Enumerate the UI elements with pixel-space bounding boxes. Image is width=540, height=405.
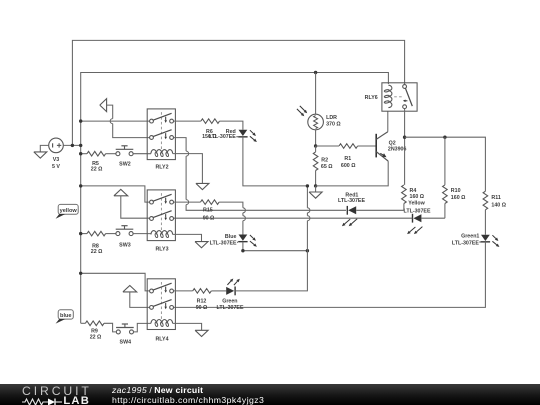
resistor R6 bbox=[201, 119, 220, 140]
wire bbox=[174, 138, 187, 152]
wire bbox=[81, 153, 87, 155]
CircuitLab logo bbox=[22, 385, 92, 398]
wire bbox=[174, 217, 413, 219]
wire bbox=[40, 145, 48, 152]
svg-text:Green1: Green1 bbox=[461, 234, 479, 240]
svg-text:SW2: SW2 bbox=[119, 161, 131, 167]
switch SW3 bbox=[116, 226, 134, 249]
wire bbox=[107, 105, 113, 119]
wire bbox=[315, 171, 317, 186]
junction bbox=[314, 71, 317, 74]
svg-text:160 Ω: 160 Ω bbox=[451, 195, 466, 201]
svg-text:600 Ω: 600 Ω bbox=[341, 163, 356, 169]
LED Green LTL-307EE bbox=[211, 279, 244, 311]
switch SW4 bbox=[116, 324, 134, 345]
wire bbox=[315, 130, 317, 146]
junction bbox=[403, 136, 406, 139]
resistor R2 bbox=[313, 146, 333, 171]
svg-text:blue: blue bbox=[60, 313, 72, 319]
wire bbox=[121, 196, 150, 218]
wire bbox=[444, 204, 446, 219]
wire bbox=[174, 201, 201, 203]
svg-text:5 V: 5 V bbox=[52, 164, 60, 170]
svg-text:90 Ω: 90 Ω bbox=[203, 215, 215, 221]
wire bbox=[306, 186, 308, 208]
svg-text:R15: R15 bbox=[203, 207, 213, 213]
svg-text:R1: R1 bbox=[344, 156, 351, 162]
LED Red LTL-307EE bbox=[209, 129, 257, 142]
wire bbox=[81, 120, 150, 122]
transistor Q2 2N3906 bbox=[376, 132, 406, 161]
LED Green1 LTL-307EE bbox=[452, 234, 499, 247]
ground bbox=[195, 330, 208, 336]
ground bbox=[315, 186, 317, 192]
wire bbox=[405, 137, 486, 191]
resistor R8 bbox=[87, 231, 106, 255]
junction bbox=[79, 152, 82, 155]
svg-text:Green: Green bbox=[222, 299, 237, 305]
wire bbox=[243, 242, 308, 251]
svg-text:RLY2: RLY2 bbox=[155, 165, 168, 171]
wire bbox=[174, 120, 201, 122]
resistor R5 bbox=[87, 151, 106, 172]
svg-text:yellow: yellow bbox=[60, 208, 78, 214]
junction bbox=[79, 184, 82, 187]
svg-text:LTL-307EE: LTL-307EE bbox=[210, 241, 237, 247]
resistor R11 bbox=[483, 191, 507, 210]
wire bbox=[220, 121, 243, 130]
svg-text:LDR: LDR bbox=[326, 115, 337, 121]
resistor R1 bbox=[339, 144, 358, 169]
junction bbox=[443, 136, 446, 139]
relay RLY4 bbox=[147, 279, 175, 343]
svg-text:LTL-307EE: LTL-307EE bbox=[217, 305, 244, 311]
wire bbox=[81, 322, 86, 324]
voltage source V3 bbox=[49, 138, 64, 170]
relay RLY3 bbox=[147, 190, 175, 253]
junction bbox=[79, 144, 82, 147]
svg-text:140 Ω: 140 Ω bbox=[491, 203, 506, 209]
footer bar bbox=[0, 384, 540, 405]
label flag yellow bbox=[56, 204, 79, 218]
node arrow bbox=[114, 189, 128, 195]
wire bbox=[81, 73, 389, 146]
svg-text:SW3: SW3 bbox=[119, 242, 131, 248]
junction bbox=[79, 272, 82, 275]
node arrow bbox=[100, 99, 107, 112]
wire bbox=[235, 251, 307, 291]
wire bbox=[63, 144, 80, 146]
wire bbox=[404, 109, 406, 185]
svg-text:Blue: Blue bbox=[225, 234, 237, 240]
switch SW2 bbox=[116, 146, 134, 168]
ground bbox=[195, 242, 208, 248]
wire bbox=[403, 204, 405, 211]
logo resistor-diode glyph bbox=[22, 397, 68, 405]
svg-text:LTL-307EE: LTL-307EE bbox=[209, 134, 236, 140]
wire bbox=[81, 233, 87, 235]
wire bbox=[72, 40, 404, 145]
svg-text:RLY3: RLY3 bbox=[155, 247, 168, 253]
svg-text:LTL-307EE: LTL-307EE bbox=[452, 240, 479, 246]
wire bbox=[243, 137, 308, 186]
svg-text:22 Ω: 22 Ω bbox=[91, 249, 103, 255]
resistor R10 bbox=[443, 185, 467, 204]
svg-text:22 Ω: 22 Ω bbox=[90, 335, 102, 341]
junction bbox=[314, 144, 317, 147]
wire bbox=[316, 161, 389, 186]
svg-text:R2: R2 bbox=[321, 158, 328, 164]
svg-text:R10: R10 bbox=[451, 188, 461, 194]
wire bbox=[81, 273, 150, 291]
node arrow bbox=[123, 286, 137, 292]
wire bbox=[358, 145, 376, 147]
svg-text:R9: R9 bbox=[91, 328, 98, 334]
resistor R12 bbox=[193, 289, 212, 311]
svg-text:22 Ω: 22 Ω bbox=[91, 167, 103, 173]
wire bbox=[80, 145, 82, 323]
svg-text:R11: R11 bbox=[491, 195, 500, 201]
junction bbox=[241, 249, 244, 252]
wire bbox=[421, 217, 445, 219]
LED Yellow LTL-307EE bbox=[404, 200, 431, 234]
LED Red1 LTL-307EE bbox=[338, 193, 365, 227]
ground bbox=[196, 183, 209, 189]
svg-text:SW4: SW4 bbox=[120, 339, 132, 345]
svg-text:Q2: Q2 bbox=[389, 140, 396, 146]
wire bbox=[81, 186, 150, 202]
svg-text:65 Ω: 65 Ω bbox=[321, 164, 333, 170]
ground bbox=[34, 152, 47, 158]
junction bbox=[71, 144, 74, 147]
svg-text:LTL-307EE: LTL-307EE bbox=[338, 198, 365, 204]
wire bbox=[173, 323, 202, 330]
wire bbox=[104, 323, 116, 332]
svg-text:V3: V3 bbox=[53, 157, 60, 163]
svg-text:160 Ω: 160 Ω bbox=[410, 194, 425, 200]
wire bbox=[106, 153, 116, 155]
svg-text:R12: R12 bbox=[197, 299, 207, 305]
label flag blue bbox=[56, 310, 74, 324]
wire bbox=[173, 234, 202, 241]
resistor R4 bbox=[402, 185, 425, 204]
wire bbox=[484, 210, 486, 235]
relay RLY2 bbox=[147, 109, 175, 171]
photoresistor LDR bbox=[297, 106, 342, 130]
svg-text:Yellow: Yellow bbox=[408, 200, 425, 206]
junction bbox=[306, 249, 309, 252]
wire bbox=[387, 111, 389, 132]
wire bbox=[219, 202, 243, 208]
svg-text:LTL-307EE: LTL-307EE bbox=[404, 208, 431, 214]
wire bbox=[444, 137, 446, 185]
resistor R9 bbox=[85, 321, 104, 341]
wire bbox=[174, 290, 193, 292]
wire bbox=[133, 153, 151, 155]
wire bbox=[134, 323, 152, 332]
relay RLY6 bbox=[365, 83, 417, 111]
resistor R15 bbox=[201, 200, 220, 222]
wire bbox=[173, 154, 203, 184]
svg-text:90 Ω: 90 Ω bbox=[196, 305, 208, 311]
LED Blue LTL-307EE bbox=[210, 234, 257, 247]
svg-text:2N3906: 2N3906 bbox=[388, 147, 407, 153]
svg-text:RLY4: RLY4 bbox=[155, 336, 168, 342]
wire bbox=[106, 233, 116, 235]
svg-text:370 Ω: 370 Ω bbox=[326, 122, 341, 128]
wire bbox=[174, 242, 486, 308]
junction bbox=[79, 232, 82, 235]
wire bbox=[315, 73, 317, 115]
wire bbox=[356, 209, 404, 211]
junction bbox=[79, 119, 82, 122]
junction bbox=[306, 184, 309, 187]
wire bbox=[130, 292, 150, 308]
wire bbox=[316, 145, 339, 147]
junction bbox=[314, 184, 317, 187]
wire bbox=[133, 233, 151, 235]
svg-text:RLY6: RLY6 bbox=[365, 95, 378, 101]
